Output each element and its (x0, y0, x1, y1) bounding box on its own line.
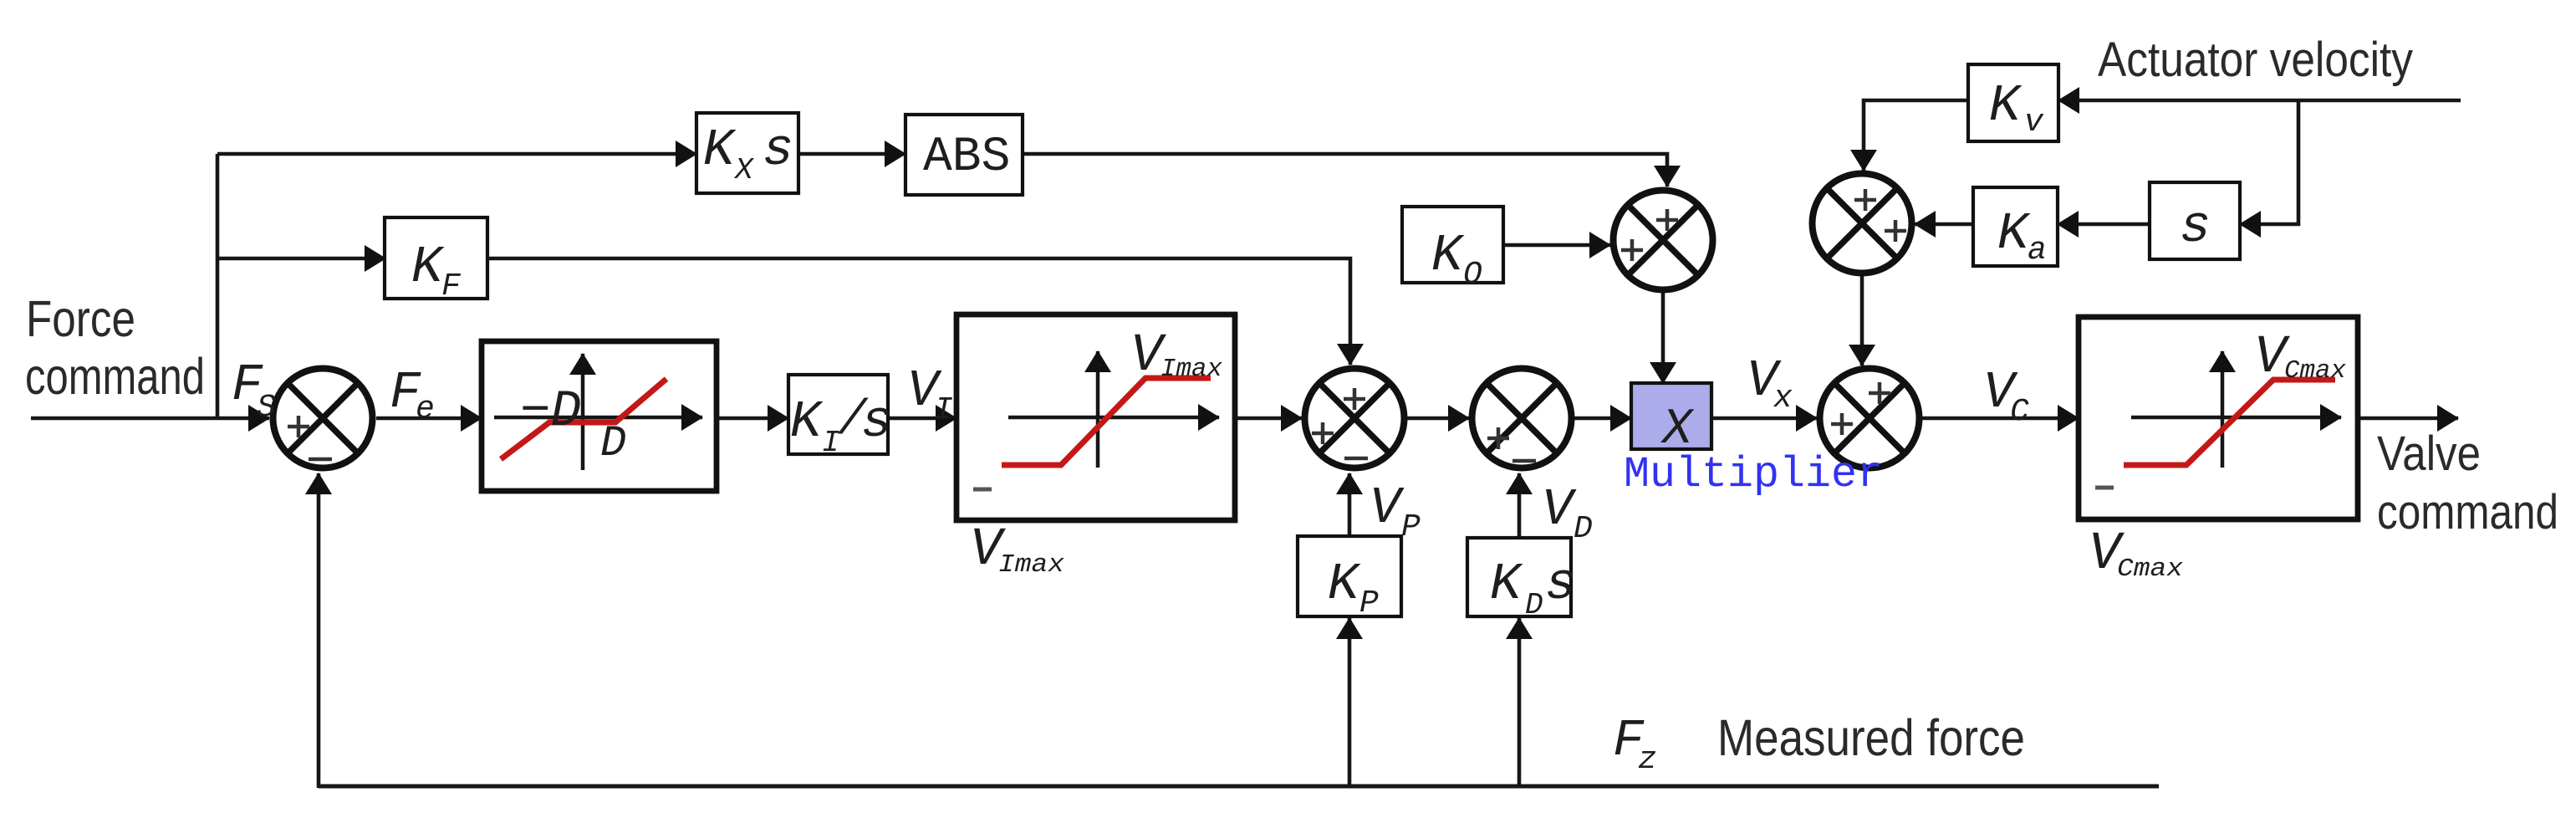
svg-text:K: K (1328, 555, 1361, 614)
svg-text:K: K (1490, 555, 1523, 614)
svg-text:C: C (2010, 394, 2029, 430)
svg-text:command: command (2377, 485, 2558, 539)
svg-text:−D: −D (520, 383, 581, 441)
svg-text:K: K (1431, 226, 1465, 285)
svg-text:v: v (2024, 105, 2044, 141)
svg-text:K: K (1997, 204, 2031, 263)
svg-text:D: D (1574, 511, 1593, 547)
svg-text:K: K (411, 238, 445, 297)
svg-text:V: V (1370, 478, 1405, 538)
svg-text:P: P (1401, 509, 1421, 545)
svg-text:K: K (1989, 76, 2023, 135)
svg-text:Actuator velocity: Actuator velocity (2098, 33, 2413, 87)
svg-text:s: s (763, 120, 793, 180)
svg-text:command: command (25, 348, 205, 405)
svg-text:Force: Force (26, 290, 135, 347)
svg-text:x: x (1773, 381, 1793, 417)
svg-text:ABS: ABS (923, 130, 1010, 185)
svg-text:Multiplier: Multiplier (1624, 450, 1883, 499)
svg-text:s: s (861, 392, 892, 452)
svg-text:Valve: Valve (2377, 427, 2481, 481)
svg-text:X: X (733, 153, 755, 187)
svg-text:Cmax: Cmax (2117, 555, 2183, 584)
svg-text:D: D (1525, 588, 1543, 622)
svg-text:O: O (1463, 257, 1482, 293)
svg-text:P: P (1359, 585, 1379, 621)
svg-text:Imax: Imax (998, 550, 1064, 580)
svg-text:V: V (1542, 480, 1577, 539)
svg-text:z: z (1638, 742, 1657, 778)
svg-text:s: s (2180, 197, 2211, 257)
svg-text:Imax: Imax (1160, 355, 1222, 384)
svg-text:S: S (257, 390, 276, 426)
svg-text:Cmax: Cmax (2284, 356, 2346, 386)
svg-text:K: K (703, 120, 737, 180)
svg-text:D: D (600, 419, 626, 468)
svg-text:a: a (2028, 233, 2047, 268)
svg-text:I: I (934, 392, 953, 428)
svg-text:K: K (790, 392, 824, 452)
svg-text:s: s (1545, 555, 1576, 614)
svg-text:F: F (441, 268, 462, 304)
svg-text:e: e (416, 391, 435, 427)
svg-text:Measured force: Measured force (1717, 709, 2025, 766)
